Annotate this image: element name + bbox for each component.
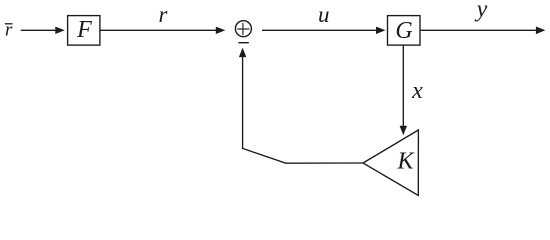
gain block K triangle — [363, 130, 418, 195]
node r-bar input label — [5, 19, 13, 40]
wire input arrow to F — [21, 27, 65, 34]
block G — [388, 16, 421, 45]
svg-text:y: y — [475, 0, 488, 23]
svg-text:x: x — [411, 78, 423, 104]
wire G down to K — [400, 45, 407, 135]
svg-text:F: F — [76, 17, 92, 43]
svg-text:u: u — [318, 2, 330, 27]
wire G output arrow — [420, 27, 545, 35]
summing junction — [235, 21, 251, 37]
svg-text:r: r — [159, 2, 169, 27]
minus sign of summing junction — [238, 42, 248, 44]
wire summing junction to G — [262, 27, 386, 34]
svg-text:r: r — [5, 19, 13, 40]
wire feedback K to summing junction — [239, 48, 363, 164]
wire F to summing junction — [100, 27, 225, 34]
svg-text:G: G — [395, 18, 412, 44]
block F — [68, 16, 100, 45]
svg-text:K: K — [396, 149, 415, 175]
